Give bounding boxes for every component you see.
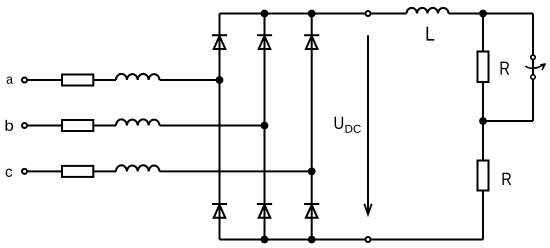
wire b resistor to inductor (94, 125, 116, 127)
switch contact upper (531, 55, 535, 59)
inductor (phase b) (116, 119, 160, 125)
junction top bus leg3 (308, 10, 316, 18)
label c (6, 169, 13, 177)
junction phase c (308, 168, 316, 176)
diode D4 (212, 204, 227, 218)
junction phase b (261, 122, 269, 130)
label R lower (503, 173, 512, 185)
terminal c (22, 169, 27, 174)
terminal DC- (366, 237, 371, 242)
terminal DC+ (366, 11, 371, 16)
switch contact lower (531, 75, 535, 79)
junction phase a (216, 76, 224, 84)
wire c terminal to resistor (28, 170, 62, 172)
resistor (phase b) (62, 120, 93, 131)
junction bottom bus leg2 (261, 236, 269, 244)
wire b inductor to bridge (160, 125, 265, 127)
junction bottom bus leg3 (308, 236, 316, 244)
wire c inductor to bridge (160, 170, 312, 172)
wire switch blade (532, 55, 534, 79)
junction top right (479, 10, 487, 18)
label a (7, 77, 13, 84)
label R upper (501, 62, 510, 75)
wire b terminal to resistor (28, 125, 62, 127)
label U_DC (335, 117, 361, 133)
arrow U_DC (364, 35, 371, 214)
junction top bus leg2 (261, 10, 269, 18)
diode D1 (212, 35, 227, 49)
inductor (phase c) (116, 165, 160, 171)
wire top bus right of inductor (449, 13, 534, 15)
resistor R upper (478, 52, 489, 83)
switch actuator arrow (525, 63, 546, 70)
wire bottom bus (220, 239, 484, 241)
diode D3 (257, 35, 272, 49)
terminal a (22, 78, 27, 83)
inductor (phase a) (116, 74, 160, 80)
wire right column lower (482, 192, 484, 240)
wire c resistor to inductor (94, 170, 116, 172)
wire top bus left (220, 13, 407, 15)
resistor (phase c) (62, 166, 93, 177)
wire a inductor to bridge (160, 79, 220, 81)
junction right node (479, 117, 487, 125)
wire switch branch bottom (532, 79, 534, 121)
wire bridge leg 1 (219, 14, 221, 240)
inductor L (407, 8, 449, 14)
wire switch branch to node (483, 120, 533, 122)
label b (6, 120, 14, 131)
wire right column upper (482, 14, 484, 51)
diode D6 (257, 204, 272, 218)
wire right column middle (482, 83, 484, 160)
wire bridge leg 3 (311, 14, 313, 240)
wire bridge leg 2 (264, 14, 266, 240)
terminal b (22, 123, 27, 128)
wire a resistor to inductor (94, 79, 116, 81)
wire switch branch top (532, 14, 534, 56)
resistor R lower (478, 161, 489, 191)
wire a terminal to resistor (28, 79, 62, 81)
diode D2 (304, 204, 319, 218)
label L (427, 27, 435, 41)
resistor (phase a) (62, 75, 93, 86)
diode D5 (304, 35, 319, 49)
